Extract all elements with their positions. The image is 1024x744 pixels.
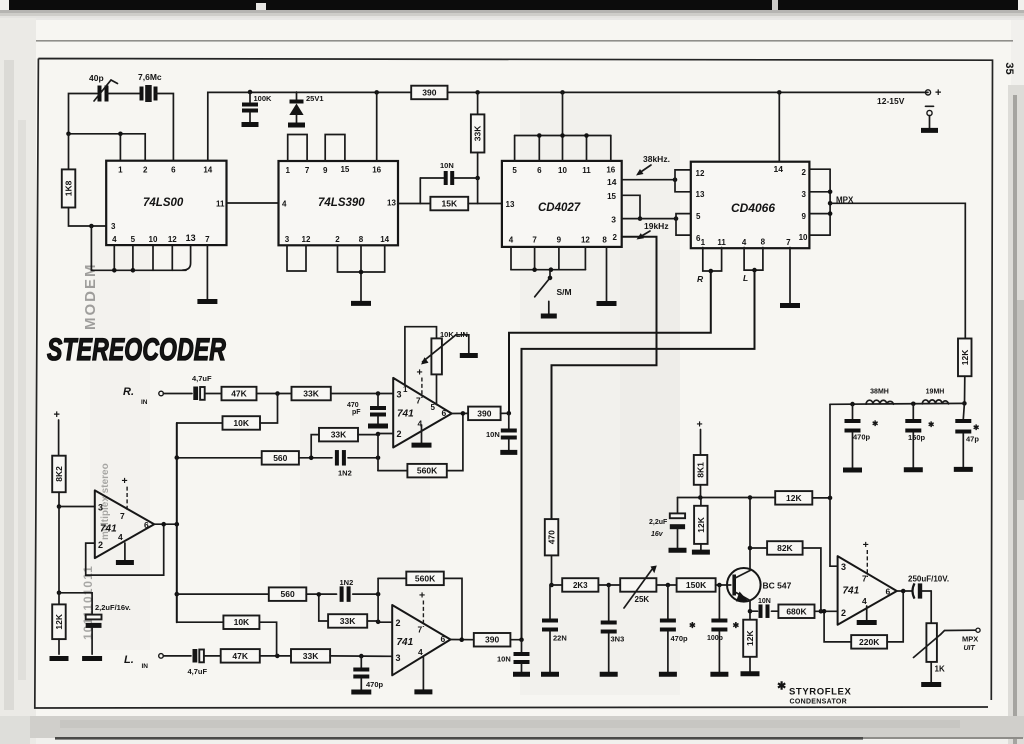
capacitor 250uF/10V [908,575,949,599]
svg-text:+: + [935,87,941,99]
svg-text:4: 4 [118,532,123,542]
resistor 390 R [468,407,501,421]
resistor 470 [545,519,559,587]
wire pin16 riser [376,92,378,161]
IC U1 74LS00 [106,161,226,245]
ground zener [288,123,305,128]
svg-text:4: 4 [742,238,747,247]
svg-text:33K: 33K [473,125,483,141]
svg-text:✱: ✱ [689,621,696,630]
wire pin14 vdd riser [778,92,780,161]
svg-text:14: 14 [607,177,617,187]
capacitor 2,2uF/16v left [59,593,131,654]
wire pins5-6 link [676,214,691,236]
wire pin7 gnd [206,245,208,299]
svg-text:470p: 470p [671,634,689,643]
svg-text:2,2uF: 2,2uF [649,519,668,526]
svg-text:R: R [697,274,704,284]
resistor 560K L [378,572,462,640]
svg-text:7: 7 [416,396,421,406]
svg-text:1K: 1K [935,665,945,674]
capacitor 100K [242,92,272,122]
resistor 8K1 [694,419,708,498]
svg-text:6: 6 [537,166,542,175]
svg-text:14: 14 [774,164,784,174]
svg-text:390: 390 [485,635,499,645]
svg-text:7: 7 [205,235,210,244]
svg-text:35: 35 [1003,62,1015,74]
loop pins1-7 [288,135,307,162]
svg-text:7: 7 [532,236,537,245]
svg-text:16v: 16v [651,531,664,538]
ground 470p mod [659,672,677,677]
wire pin2 19khz run [552,237,657,519]
wire pin2-560K R [377,434,379,471]
svg-text:CONDENSATOR: CONDENSATOR [790,699,848,706]
resistor 1K8 [62,169,76,207]
node pin16 [374,90,379,95]
label 19kHz [637,221,669,240]
svg-text:4: 4 [418,647,423,657]
label + 8k2 [54,409,60,456]
ground 12k emitter [741,671,760,676]
svg-text:2: 2 [841,608,846,618]
resistor 12K emitter [743,620,757,672]
svg-text:S/M: S/M [557,287,572,297]
wire main bus [175,423,180,622]
svg-text:47p: 47p [966,435,979,444]
svg-text:L: L [743,273,748,283]
svg-text:2: 2 [335,235,340,244]
vminus R opamp [421,425,423,443]
svg-text:1: 1 [701,238,706,247]
resistor 33K L [291,649,330,663]
wire bias out [154,522,179,527]
wire Lin [163,655,191,657]
label L in [124,654,148,670]
svg-text:IN: IN [142,663,149,670]
ground 12k vert [692,550,710,555]
svg-text:5: 5 [431,403,436,412]
loop R pins1-11 [697,248,722,285]
ground minus [921,128,938,133]
svg-text:8: 8 [761,238,766,247]
wire pin3 19k [622,216,679,221]
svg-text:BC 547: BC 547 [763,581,792,591]
svg-text:25V1: 25V1 [306,94,324,103]
svg-text:9: 9 [802,212,807,221]
svg-text:12K: 12K [54,613,64,629]
svg-text:1: 1 [285,166,290,175]
svg-text:12K: 12K [696,516,706,532]
wire 8k2-node [57,492,62,509]
svg-text:2: 2 [397,429,402,439]
vplus bias [122,475,128,511]
ground 150p filter [904,467,923,472]
vplus out opamp [863,539,869,577]
resistor 47K L [221,649,260,663]
wire divider [57,507,62,596]
svg-text:3: 3 [98,503,103,513]
capacitor 1N2 R [337,450,380,477]
wire out node [897,589,912,594]
note styroflex [777,681,851,706]
svg-text:38kHz.: 38kHz. [643,154,670,164]
wire 390R node [501,411,512,416]
vminus bias [124,543,126,560]
loop pins9-15 [325,135,345,162]
label MPX [836,196,854,205]
resistor 15K [398,178,502,210]
svg-text:10N: 10N [440,161,454,170]
svg-text:40p: 40p [89,73,104,83]
svg-text:15: 15 [340,165,349,174]
wire MPX UIT [941,628,981,634]
svg-text:100p: 100p [707,635,723,642]
resistor 560 R [175,451,333,465]
svg-text:3: 3 [111,222,116,231]
svg-text:2: 2 [98,540,103,550]
wire 390-rail [448,90,929,95]
wire 390L node [510,637,523,642]
svg-text:8: 8 [602,236,607,245]
svg-text:16: 16 [372,166,381,175]
wire offset pin1 [405,327,437,386]
power terminal - [926,106,934,128]
capacitor 47p filter [955,403,980,467]
svg-text:2: 2 [613,233,618,242]
resistor 680K [778,605,837,619]
op-amp U6 741 bias [95,490,154,558]
svg-text:4: 4 [509,236,514,245]
capacitor 22N [542,585,567,672]
svg-text:12K: 12K [960,349,970,365]
svg-text:560K: 560K [417,466,438,476]
capacitor 10N osc [420,161,477,185]
potentiometer 1K [914,623,945,682]
wire to 1K pot [930,591,932,623]
IC U4 CD4066 [691,162,810,249]
svg-text:1K8: 1K8 [64,180,74,196]
wire pin14 rail [208,92,411,160]
svg-text:STYROFLEX: STYROFLEX [789,687,851,698]
resistor 47K R [222,387,257,401]
svg-text:pF: pF [352,409,361,416]
svg-text:220K: 220K [859,637,880,647]
wire MPX out [830,203,965,338]
svg-text:11: 11 [582,166,591,175]
svg-text:10K: 10K [233,418,249,428]
zener 25V1 [289,92,323,123]
svg-text:7: 7 [305,166,310,175]
resistor 12K left [52,593,65,639]
svg-text:19MH: 19MH [926,389,945,396]
wire pins12-13 link [675,170,691,192]
wire Rin [163,393,192,395]
resistor 390 L [474,633,511,647]
resistor 12K horiz [775,491,832,505]
capacitor 4,7uF L [188,649,221,676]
svg-text:7,6Mc: 7,6Mc [138,72,162,82]
ground 47p filter [954,467,973,472]
svg-text:MPX: MPX [962,635,978,644]
svg-text:12: 12 [168,235,177,244]
svg-text:12K: 12K [786,493,802,503]
svg-text:✱: ✱ [733,621,740,630]
svg-text:741: 741 [397,637,414,648]
svg-text:8K2: 8K2 [54,466,64,482]
IC U2 74LS390 [279,161,399,245]
ground 74ls390 [351,301,371,306]
wire pin8 gnd 4027 [606,247,608,301]
wire 33k-pin3 R [331,391,393,396]
terminal R in [159,391,164,396]
wire out L [451,637,474,642]
ground 1K pot [921,682,941,687]
svg-text:1: 1 [118,166,123,175]
svg-text:10N: 10N [758,598,771,605]
ground 10n R [500,450,517,455]
capacitor 470p mod [660,585,696,672]
ground pin7 4066 [780,303,800,308]
resistor 390 top [411,86,447,100]
resistor 2K3 [552,578,621,592]
feedback bias [86,524,164,575]
potentiometer 10K LIN [421,330,470,405]
svg-text:560: 560 [273,453,287,463]
svg-text:11: 11 [216,200,225,209]
wire pins1-2 bus [66,132,145,161]
ground 470pF R [368,424,388,429]
wire bottom bus 74ls00 [91,226,190,273]
wire pin14 38k [622,177,678,182]
wire 33k-pin3 L [330,654,392,659]
inductor 19MH [922,389,948,404]
ground 3N3 [600,672,618,677]
svg-text:15K: 15K [442,199,458,209]
op-amp U8 741 out [838,556,897,625]
op-amp U7 741 L [392,605,450,675]
wire 1k8-pin3 [69,208,107,229]
svg-text:10N: 10N [486,430,500,439]
svg-text:4: 4 [282,200,287,209]
svg-text:R.: R. [123,386,134,398]
svg-text:11: 11 [717,238,726,247]
svg-text:3: 3 [611,215,616,225]
svg-text:2,2uF/16v.: 2,2uF/16v. [95,603,131,612]
svg-text:33K: 33K [340,616,356,626]
svg-text:5: 5 [696,212,701,221]
svg-text:2: 2 [802,168,807,177]
svg-text:470p: 470p [853,433,871,442]
svg-text:1N2: 1N2 [340,578,354,587]
ground 2,2uF left [82,656,102,661]
svg-text:+: + [122,475,128,487]
wire pin15-3 loop [622,195,643,221]
resistor 33K top [471,92,485,180]
wire pin3 bias [59,506,95,508]
capacitor 10n R [486,413,517,450]
ground 12k left [50,639,69,658]
svg-text:6: 6 [442,408,447,418]
svg-text:33K: 33K [331,430,347,440]
svg-text:560K: 560K [415,573,436,583]
svg-text:10K: 10K [234,617,250,627]
svg-text:16: 16 [606,166,615,175]
transistor Q1 BC547 [727,568,792,602]
ground 74ls00 [197,299,217,304]
svg-text:✱: ✱ [973,423,980,432]
svg-text:33K: 33K [303,651,319,661]
ground out opamp [857,620,877,625]
svg-text:CD4027: CD4027 [538,202,581,214]
ground bias opamp [116,560,134,565]
resistor 12K vert [694,498,708,550]
svg-text:4,7uF: 4,7uF [192,374,212,383]
svg-text:12K: 12K [745,630,755,646]
svg-text:25K: 25K [635,595,650,604]
vplus R opamp [417,367,423,399]
ground 10n L [513,672,530,677]
svg-text:L.: L. [124,654,134,666]
capacitor 100p [707,585,740,672]
wire pin3 out opamp [830,498,838,566]
svg-text:12: 12 [581,236,590,245]
wire R run [509,271,711,413]
svg-text:100K: 100K [254,94,273,103]
svg-text:2: 2 [143,166,148,175]
power terminal + [877,87,941,106]
svg-text:560: 560 [281,589,295,599]
svg-text:3: 3 [285,235,290,244]
svg-text:9: 9 [557,236,562,245]
svg-text:✱: ✱ [872,419,879,428]
svg-text:2: 2 [396,618,401,628]
trimmer capacitor 40p [89,73,118,102]
svg-text:+: + [697,419,703,431]
capacitor 2,2uF 16v mod [649,498,685,548]
resistor 10K L [177,616,277,656]
wire left vertical [68,134,70,170]
wire pin11-pin4 [227,202,279,204]
capacitor 150p filter [905,404,935,468]
wire pin2 L [376,620,392,625]
svg-text:+: + [54,409,60,421]
svg-text:390: 390 [422,87,436,97]
svg-text:10: 10 [149,235,158,244]
svg-text:390: 390 [477,408,491,418]
wire 4066 right bus [809,169,832,235]
ground 22N [541,672,559,677]
label MPX UIT [962,635,978,653]
label 38kHz [636,154,670,176]
svg-text:8K1: 8K1 [696,462,706,478]
svg-text:5: 5 [512,166,517,175]
wire 25k-150k [656,583,676,588]
svg-text:6: 6 [171,166,176,175]
svg-text:13: 13 [186,233,196,243]
capacitor 470p L [353,656,383,689]
svg-text:33K: 33K [303,389,319,399]
capacitor 10N fb [750,598,778,618]
svg-text:470: 470 [347,402,359,409]
svg-text:12: 12 [696,169,705,178]
svg-text:6: 6 [886,587,891,597]
capacitor 470p filter [845,404,880,467]
vminus out opamp [866,606,868,620]
svg-text:1N2: 1N2 [338,469,352,478]
IC U3 CD4027 [502,161,622,247]
svg-text:13: 13 [696,190,705,199]
vminus L opamp [422,657,424,689]
svg-text:5: 5 [131,235,136,244]
svg-text:✱: ✱ [928,420,935,429]
svg-text:✱: ✱ [777,681,786,693]
svg-text:CD4066: CD4066 [731,201,775,215]
terminal L in [159,654,164,659]
capacitor 3N3 [601,585,625,672]
svg-text:47K: 47K [231,389,247,399]
switch S/M [535,271,572,314]
svg-text:13: 13 [387,199,396,208]
ground 470p L [351,690,371,695]
wire 4027 bottom bus [511,247,585,272]
wire emitter [748,601,753,620]
svg-text:+: + [419,590,425,602]
wire 47k-33k L [260,654,291,659]
svg-text:10: 10 [558,166,567,175]
svg-text:UIT: UIT [964,645,976,652]
svg-text:470p: 470p [366,680,384,689]
svg-text:14: 14 [380,235,389,244]
svg-text:IN: IN [141,399,148,406]
svg-text:741: 741 [100,524,117,535]
svg-text:9: 9 [323,166,328,175]
resistor 33K R [292,387,331,401]
svg-text:7: 7 [862,574,867,584]
capacitor 4,7uF R [192,374,222,400]
svg-text:12-15V: 12-15V [877,96,905,106]
resistor 82K [750,541,821,611]
trimmer 25K [620,566,657,609]
svg-text:3: 3 [396,653,401,663]
op-amp U5 741 R [393,378,452,448]
svg-text:150K: 150K [686,580,707,590]
svg-text:470: 470 [547,530,557,544]
wire collector [748,495,753,570]
page number 35 [1003,62,1015,74]
wire L run [522,270,755,640]
ground L opamp [414,689,432,694]
svg-text:13: 13 [506,200,515,209]
svg-text:12: 12 [302,235,311,244]
svg-text:22N: 22N [553,634,567,643]
capacitor 10n L [497,640,530,672]
wire 47k-33k R [257,391,292,396]
svg-text:3: 3 [802,190,807,199]
wire trim-xtal [107,93,140,95]
feedback 220K [821,609,851,642]
resistor 12K right [958,339,972,406]
svg-text:150p: 150p [908,433,926,442]
wire pin2-560K L [377,578,379,621]
ground 470p filter [843,468,862,473]
wire xtal-pin6 [156,94,174,161]
loop pins3-12 [287,245,306,271]
inductor 38MH [866,389,893,405]
resistor 33K R2 [311,428,378,458]
vplus L opamp [419,590,425,628]
